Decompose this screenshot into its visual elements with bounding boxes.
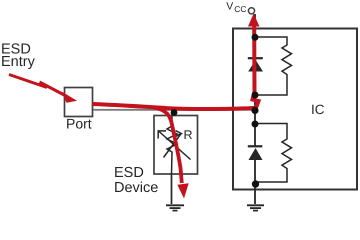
Vcc terminal circle <box>248 8 254 14</box>
svg-text:IC: IC <box>311 102 325 117</box>
red ESD entry bolt arrow <box>9 75 77 103</box>
node dot upper-bottom <box>252 92 259 99</box>
label ESD Entry <box>1 41 36 70</box>
label ESD Device <box>114 165 158 196</box>
wire port to IC input <box>93 109 255 111</box>
resistor upper <box>255 37 292 95</box>
resistor zigzag <box>167 116 177 174</box>
wire ESD device to ground <box>171 174 173 204</box>
arrow up-right <box>164 134 182 158</box>
arrow up-left <box>159 131 191 160</box>
red branch through ESD device to ground <box>153 107 182 183</box>
node dot lower-bottom <box>252 180 259 187</box>
ESD device symbol: variable resistor <box>158 116 190 174</box>
IC box <box>233 29 357 190</box>
node dot lower-top <box>252 121 259 128</box>
node dot input <box>251 107 258 114</box>
svg-text:Device: Device <box>114 180 158 196</box>
svg-text:CC: CC <box>234 4 246 14</box>
resistor lower <box>255 124 292 183</box>
ground under IC <box>247 205 264 210</box>
svg-text:V: V <box>226 1 233 13</box>
red arrowhead at Vcc <box>248 14 260 27</box>
red ESD current path: port to IC and up to Vcc <box>92 27 259 110</box>
diode D1 (upper) <box>248 58 263 71</box>
wire Vcc rail <box>254 14 256 204</box>
svg-text:Port: Port <box>66 116 92 132</box>
label Vcc <box>226 1 246 14</box>
svg-text:ESD: ESD <box>114 165 144 181</box>
svg-text:R: R <box>184 128 193 142</box>
ground under ESD device <box>166 205 184 210</box>
node dot upper-top <box>252 34 259 41</box>
ESD device box <box>154 116 198 175</box>
red arrowhead at ESD ground <box>177 183 188 198</box>
node dot A (ESD device tap) <box>171 109 178 116</box>
port box (Port) <box>65 88 93 117</box>
diode D2 (lower) <box>248 146 263 160</box>
svg-text:Entry: Entry <box>1 54 36 70</box>
